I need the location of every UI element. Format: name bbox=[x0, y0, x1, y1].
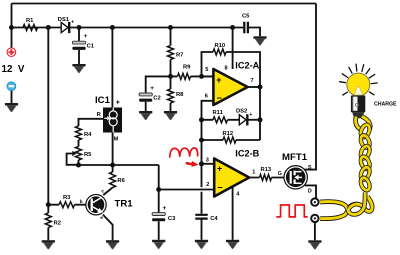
svg-text:R10: R10 bbox=[215, 43, 226, 49]
svg-text:C1: C1 bbox=[87, 44, 95, 50]
node : R1 right bbox=[46, 25, 51, 30]
svg-text:DS1: DS1 bbox=[58, 17, 70, 23]
svg-text:R9: R9 bbox=[183, 65, 191, 71]
svg-text:R6: R6 bbox=[117, 178, 125, 184]
svg-text:+: + bbox=[163, 205, 167, 212]
wire : +12V top rail bbox=[12, 3, 317, 5]
ground : under C1 bbox=[72, 64, 85, 73]
svg-text:c: c bbox=[101, 190, 104, 195]
wire : R2 to ground bbox=[47, 228, 49, 241]
svg-text:MFT1: MFT1 bbox=[282, 152, 308, 163]
wire : R5 bottom to node row bbox=[78, 160, 80, 165]
wire : - terminal to ground bbox=[11, 91, 13, 103]
resistor R2 bbox=[47, 205, 49, 213]
resistor R4 bbox=[76, 126, 82, 140]
output terminal 2 bbox=[311, 215, 318, 222]
svg-text:−: − bbox=[217, 93, 222, 103]
wire : pin4 to ground bbox=[232, 187, 234, 240]
svg-text:2: 2 bbox=[206, 182, 209, 188]
svg-text:TR1: TR1 bbox=[115, 198, 134, 209]
diode DS2 bbox=[239, 115, 246, 125]
op-amp IC2-B bbox=[214, 159, 249, 197]
svg-text:C2: C2 bbox=[153, 95, 160, 101]
svg-text:1: 1 bbox=[252, 169, 255, 175]
svg-text:CHARGE: CHARGE bbox=[374, 102, 397, 108]
wire : pin8 supply bbox=[232, 28, 234, 70]
svg-text:C4: C4 bbox=[210, 216, 218, 222]
svg-text:+: + bbox=[150, 85, 154, 92]
transistor TR1 bbox=[86, 195, 106, 215]
node : R11 row left bbox=[199, 117, 204, 122]
wire : R12 row bbox=[202, 139, 261, 141]
wire : C1 leads bbox=[78, 28, 80, 65]
wire : left column bbox=[47, 28, 49, 205]
svg-text:R11: R11 bbox=[213, 110, 224, 116]
wire : R6 to TR1 collector bbox=[103, 188, 112, 196]
wire : R3 leads bbox=[48, 204, 86, 206]
node : R12 row left bbox=[199, 138, 204, 143]
resistor R11 bbox=[202, 119, 240, 121]
svg-text:−: − bbox=[217, 183, 222, 193]
capacitor C4 bbox=[195, 215, 207, 219]
resistor R1 bbox=[23, 25, 38, 31]
svg-text:12 V: 12 V bbox=[2, 64, 25, 75]
ground : under R2 bbox=[42, 240, 55, 249]
svg-text:R: R bbox=[97, 112, 101, 118]
wire : integrator column bbox=[201, 120, 203, 164]
wire : R10 loop bbox=[202, 52, 261, 87]
ground : C5 bbox=[253, 36, 266, 45]
wire : left supply drop bbox=[11, 4, 13, 48]
lamp rays bbox=[340, 64, 378, 95]
svg-text:C5: C5 bbox=[242, 14, 250, 20]
svg-text:R4: R4 bbox=[84, 132, 92, 138]
svg-text:R8: R8 bbox=[176, 92, 184, 98]
ground : under C3 bbox=[152, 240, 165, 249]
svg-text:IC2-A: IC2-A bbox=[235, 61, 259, 71]
svg-text:IC2-B: IC2-B bbox=[235, 149, 259, 159]
svg-text:R13: R13 bbox=[261, 167, 272, 173]
ground : under R8 bbox=[164, 111, 177, 120]
wire : output pin7 bbox=[248, 86, 260, 88]
resistor R12 bbox=[223, 137, 236, 143]
node : R7/R8/R9/C2 junction bbox=[168, 74, 173, 79]
op-amp IC2-A bbox=[213, 69, 247, 105]
ground : under terminals bbox=[308, 240, 321, 249]
ground : under C2 bbox=[139, 111, 152, 120]
svg-text:8: 8 bbox=[225, 65, 228, 71]
node : C3 junction bbox=[156, 187, 161, 192]
svg-text:6: 6 bbox=[205, 94, 208, 100]
resistor R6 bbox=[112, 165, 114, 172]
svg-text:+: + bbox=[84, 33, 88, 40]
ground : under - terminal bbox=[5, 103, 18, 112]
wire : R4-R5 bbox=[78, 140, 80, 147]
wire : pin5 input bbox=[202, 75, 214, 77]
wire : TR1 emitter to ground bbox=[103, 215, 113, 241]
wire : source to +V bbox=[305, 4, 317, 170]
red arrow bbox=[186, 163, 193, 164]
capacitor C5 bbox=[233, 28, 260, 37]
node : R5 bottom bbox=[76, 163, 81, 168]
lamp bulb bbox=[347, 73, 370, 96]
resistor R13 bbox=[260, 175, 272, 181]
IC1 body bbox=[103, 108, 122, 133]
resistor R8 bbox=[168, 89, 174, 103]
wire : IC1 + pin bbox=[111, 28, 113, 108]
wire : bias corner into C3 bbox=[158, 165, 160, 213]
wire : pin6 down chain bbox=[202, 101, 214, 120]
wire : main +V rail bbox=[12, 27, 233, 29]
wire : pin1 output bbox=[249, 177, 284, 179]
svg-text:+: + bbox=[217, 164, 222, 174]
wire : terminal 2 to ground bbox=[314, 222, 316, 240]
output terminal 1 bbox=[311, 198, 318, 205]
R5 wiper arm bbox=[67, 154, 79, 165]
node : IC1 top tap bbox=[110, 25, 115, 30]
node : rail/supply junction bbox=[9, 25, 14, 30]
capacitor C2 bbox=[146, 76, 171, 111]
node : R7 rail tap bbox=[168, 25, 173, 30]
wire : drain down bbox=[305, 185, 316, 198]
diode DS1 bbox=[61, 22, 68, 32]
lamp socket bbox=[351, 95, 365, 112]
svg-text:IC1: IC1 bbox=[95, 95, 111, 106]
node : R6 top junction bbox=[110, 163, 115, 168]
svg-text:R7: R7 bbox=[176, 53, 183, 59]
battery - terminal bbox=[7, 82, 16, 91]
svg-text:+: + bbox=[249, 112, 252, 118]
wire : integrator column to C4 bbox=[201, 164, 203, 214]
capacitor C3 bbox=[152, 213, 165, 222]
node : R3/R2 junction bbox=[46, 202, 51, 207]
node : C1 tap bbox=[77, 25, 82, 30]
battery + terminal bbox=[7, 48, 16, 57]
svg-text:+: + bbox=[71, 20, 74, 26]
svg-text:G: G bbox=[278, 171, 282, 177]
svg-text:D: D bbox=[308, 188, 312, 194]
svg-text:+: + bbox=[116, 100, 120, 107]
wire : IC1 M pin down bbox=[112, 133, 114, 166]
wire : output column down bbox=[259, 87, 261, 140]
svg-text:R1: R1 bbox=[26, 18, 34, 24]
ground : under pin4 bbox=[226, 240, 239, 249]
resistor R7 bbox=[170, 28, 172, 46]
resistor R9 bbox=[171, 75, 214, 77]
svg-text:3: 3 bbox=[206, 158, 209, 164]
wire : bias row bbox=[79, 164, 159, 166]
ground : under C4 bbox=[195, 240, 208, 249]
resistor R10 bbox=[213, 49, 226, 55]
svg-text:DS2: DS2 bbox=[236, 109, 247, 115]
wire : pin3 input bbox=[202, 163, 215, 165]
red sawtooth scribble bbox=[170, 148, 198, 157]
svg-text:R5: R5 bbox=[84, 152, 92, 158]
svg-text:M: M bbox=[114, 137, 119, 143]
svg-text:5: 5 bbox=[205, 67, 208, 73]
twisted lamp cord bbox=[356, 117, 361, 130]
node : R11 row right bbox=[258, 117, 263, 122]
wire : IC1 R pin to R4 bbox=[79, 119, 104, 126]
svg-text:7: 7 bbox=[251, 78, 254, 84]
svg-text:e: e bbox=[100, 216, 103, 221]
trimmer R5 bbox=[76, 147, 82, 161]
wire : pin2 row bbox=[159, 189, 215, 191]
svg-text:R3: R3 bbox=[63, 195, 71, 201]
ground : under TR1 bbox=[106, 240, 119, 249]
svg-text:R2: R2 bbox=[54, 221, 61, 227]
red square wave bbox=[276, 205, 307, 217]
svg-text:C3: C3 bbox=[168, 216, 176, 222]
capacitor C1 bbox=[72, 41, 85, 50]
mosfet MFT1 bbox=[284, 166, 307, 189]
svg-text:+: + bbox=[216, 75, 221, 85]
svg-text:R12: R12 bbox=[223, 131, 234, 137]
resistor R3 bbox=[59, 202, 75, 208]
